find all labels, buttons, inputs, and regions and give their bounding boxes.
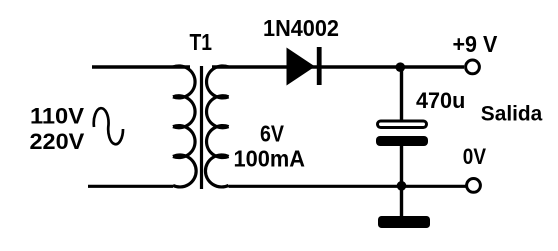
svg-text:+9 V: +9 V	[453, 31, 498, 57]
svg-text:100mA: 100mA	[234, 145, 306, 171]
svg-text:Salida: Salida	[481, 101, 544, 125]
svg-text:6V: 6V	[260, 121, 285, 147]
svg-text:110V: 110V	[30, 104, 84, 129]
svg-text:0V: 0V	[463, 144, 486, 169]
svg-text:1N4002: 1N4002	[263, 15, 339, 41]
svg-text:T1: T1	[190, 29, 213, 55]
svg-text:470u: 470u	[416, 88, 465, 113]
svg-text:220V: 220V	[30, 129, 85, 154]
